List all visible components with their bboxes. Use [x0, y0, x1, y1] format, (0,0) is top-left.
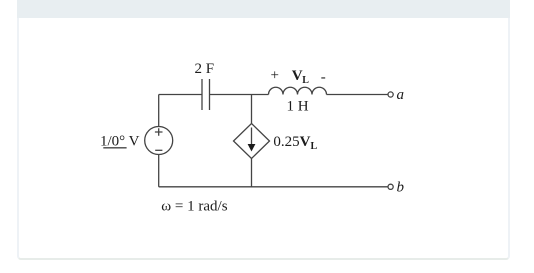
svg-text:V: V — [292, 68, 303, 84]
wire: bottom horizontal to terminal b — [159, 186, 388, 188]
terminal b open circle — [388, 184, 393, 189]
voltage source minus sign — [155, 149, 162, 151]
wire: top-left horizontal from corner to capacitor left plate — [159, 94, 202, 96]
svg-text:2 F: 2 F — [195, 61, 215, 77]
wire: dependent source top lead from junction — [251, 95, 253, 124]
dependent source arrow shaft — [251, 128, 253, 146]
inductor L 1H coil — [269, 87, 327, 94]
svg-text:+: + — [271, 67, 279, 83]
voltage source plus sign — [155, 128, 163, 136]
angle underline of source phasor label — [103, 147, 126, 149]
wire: top middle from capacitor to inductor (through junction) — [210, 94, 269, 96]
svg-text:ω = 1 rad/s: ω = 1 rad/s — [161, 198, 227, 214]
capacitor C 2F plates — [202, 79, 210, 110]
svg-text:L: L — [302, 75, 309, 86]
wire: left vertical from top corner down to source — [158, 95, 160, 127]
svg-text:1 H: 1 H — [287, 98, 309, 114]
svg-text:b: b — [397, 179, 405, 195]
dependent source arrowhead — [248, 144, 256, 152]
svg-text:a: a — [397, 87, 405, 103]
svg-text:-: - — [321, 69, 326, 85]
wire: dependent source bottom lead — [251, 159, 253, 187]
svg-text:1/0° V: 1/0° V — [100, 133, 140, 149]
svg-text:0.25VL: 0.25VL — [273, 134, 317, 152]
voltage source V1 circle — [145, 127, 173, 155]
dependent source U1 diamond 0.25VL — [234, 124, 270, 159]
wire: left vertical from source down to bottom corner — [158, 155, 160, 187]
terminal a open circle — [388, 92, 393, 97]
wire: top right to terminal a — [327, 94, 388, 96]
